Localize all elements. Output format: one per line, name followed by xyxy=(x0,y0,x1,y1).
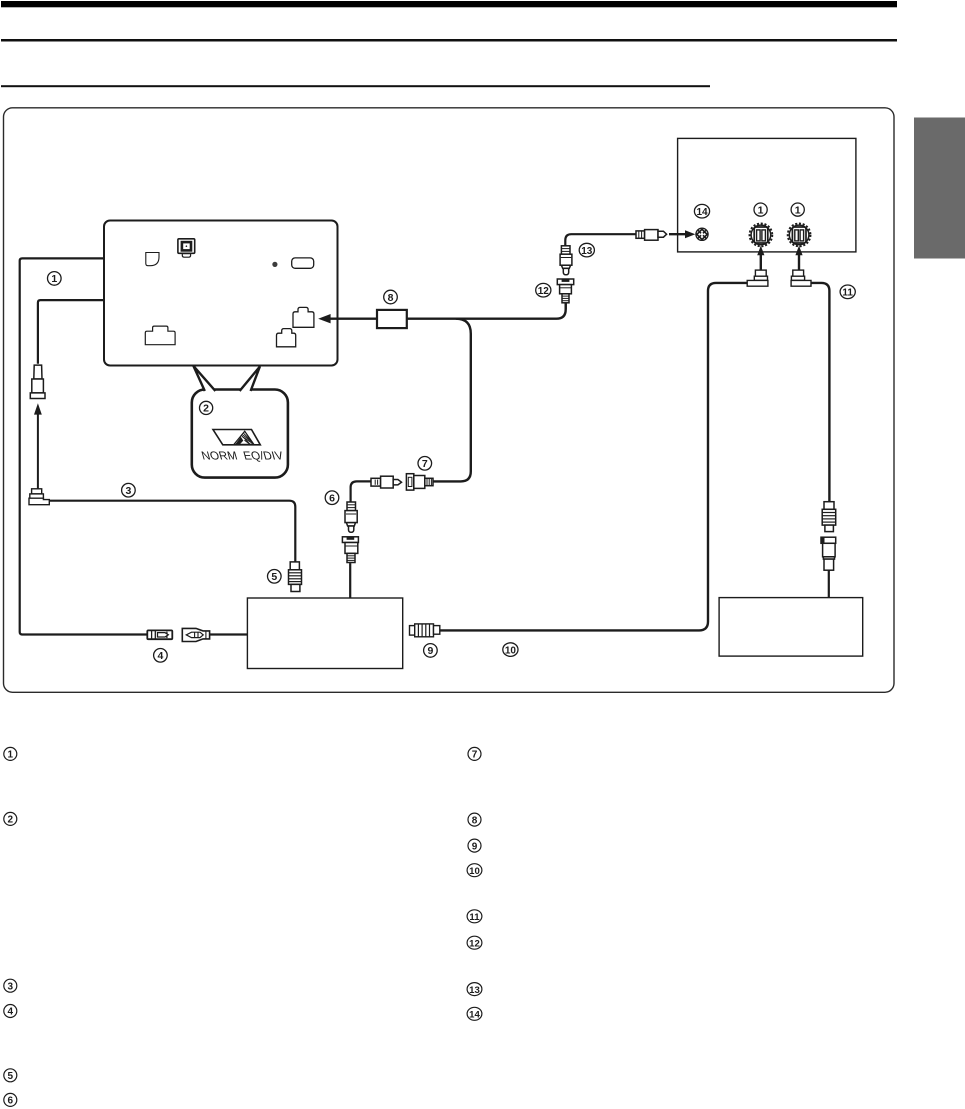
RCA output socket lower xyxy=(277,329,296,347)
legend label 6 xyxy=(4,1093,17,1106)
svg-text:8: 8 xyxy=(388,292,394,304)
bullet terminal female 4 xyxy=(182,628,209,641)
wire jack 7 to junction xyxy=(433,319,471,482)
DIN socket right xyxy=(788,224,811,247)
JASO antenna plug xyxy=(30,365,45,398)
connector 9 barrel xyxy=(410,624,440,637)
svg-text:9: 9 xyxy=(472,841,478,852)
label 1 right DIN xyxy=(791,203,804,216)
top title bar xyxy=(1,1,897,7)
balloon callout 2 xyxy=(192,366,288,478)
wire jack 12 down xyxy=(565,303,567,309)
legend label 2 xyxy=(4,812,17,825)
label 8 xyxy=(384,290,398,304)
svg-text:14: 14 xyxy=(469,1010,480,1021)
svg-text:13: 13 xyxy=(581,246,593,257)
svg-text:9: 9 xyxy=(427,645,433,657)
svg-text:7: 7 xyxy=(422,458,428,470)
wire: antenna lead from head unit xyxy=(20,258,147,634)
label 10 xyxy=(503,643,518,657)
wire to amplifier xyxy=(828,570,830,597)
label 9 xyxy=(424,644,438,658)
svg-text:5: 5 xyxy=(8,1071,14,1082)
header rule xyxy=(1,39,897,42)
svg-text:8: 8 xyxy=(472,815,478,826)
svg-text:5: 5 xyxy=(271,571,277,583)
antenna socket xyxy=(146,253,159,266)
fuse holder xyxy=(292,258,314,268)
screw xyxy=(272,262,277,267)
label 13 xyxy=(579,243,594,257)
svg-text:14: 14 xyxy=(696,207,708,218)
L-plug antenna extension xyxy=(29,489,49,505)
svg-text:3: 3 xyxy=(8,981,14,992)
label 7 xyxy=(418,457,432,471)
arrow to knurled jack xyxy=(669,230,695,238)
legend label 11 xyxy=(467,910,482,923)
label 1 xyxy=(48,272,62,286)
section underline xyxy=(1,85,710,87)
RCA cable 13: elbow wire xyxy=(565,234,636,246)
RCA jack 12 xyxy=(557,279,573,303)
wire jack to equalizer xyxy=(349,563,351,598)
power antenna connector xyxy=(178,239,195,257)
RCA output socket upper xyxy=(293,307,314,327)
label 12 xyxy=(536,283,551,297)
svg-text:13: 13 xyxy=(469,985,480,996)
label 1 left DIN xyxy=(754,203,767,216)
svg-text:2: 2 xyxy=(8,815,14,826)
arrow up into right DIN xyxy=(795,246,802,270)
svg-text:10: 10 xyxy=(505,645,517,656)
svg-text:1: 1 xyxy=(8,750,14,761)
connector 11 upper barrel xyxy=(822,502,836,532)
label 4 xyxy=(154,649,168,663)
knurled jack 14 xyxy=(694,226,711,243)
RCA cable 13: vertical male plug xyxy=(560,246,572,275)
CD shuttle box xyxy=(678,138,856,252)
legend label 3 xyxy=(4,979,17,992)
NORM EQ/DIV switch icon xyxy=(213,430,260,445)
svg-text:10: 10 xyxy=(469,866,480,877)
DIN socket left xyxy=(750,224,773,247)
equalizer/divider box xyxy=(247,598,402,669)
label 5 xyxy=(268,570,282,584)
wire 3 to connector 5 xyxy=(49,501,295,562)
main wire fuse to jack 12 xyxy=(407,303,566,319)
legend label 10 xyxy=(467,864,482,877)
wire 11 from right L-plug down xyxy=(811,283,829,502)
legend label 5 xyxy=(4,1069,17,1082)
svg-text:1: 1 xyxy=(51,273,57,285)
RCA cable 6: horizontal male plug xyxy=(371,476,402,488)
svg-text:1: 1 xyxy=(758,204,764,216)
RCA cable 6: vertical male plug xyxy=(345,502,357,532)
bullet terminal male 4 xyxy=(147,630,172,639)
wire female bullet to equalizer xyxy=(210,633,247,635)
RCA cable 13: horizontal male plug xyxy=(636,230,667,241)
legend label 14 xyxy=(467,1007,482,1020)
head unit (rear view) xyxy=(104,221,338,366)
legend label 7 xyxy=(468,747,481,760)
legend label 13 xyxy=(467,983,482,996)
legend label 4 xyxy=(4,1005,17,1018)
wire 10 from left L-plug to connector 9 xyxy=(440,283,747,631)
svg-text:7: 7 xyxy=(472,750,478,761)
ISO antenna connector xyxy=(145,326,175,345)
svg-text:2: 2 xyxy=(203,403,209,415)
connector 5 ribbed barrel xyxy=(289,562,302,592)
legend label 1 xyxy=(4,747,17,760)
DIN L-plug right xyxy=(791,270,811,286)
page index tab xyxy=(914,118,965,259)
RCA jack vertical (equalizer input) xyxy=(342,537,358,563)
RCA jack 7 xyxy=(406,474,433,490)
label 11 xyxy=(840,285,855,299)
legend label 12 xyxy=(467,936,482,949)
svg-text:4: 4 xyxy=(157,650,163,662)
label 6 xyxy=(325,491,339,505)
arrow up into left DIN xyxy=(757,246,764,270)
arrow up to antenna plug xyxy=(34,403,42,489)
legend label 9 xyxy=(468,839,481,852)
svg-text:NORM EQ/DIV: NORM EQ/DIV xyxy=(200,449,285,463)
label 2 xyxy=(200,401,213,414)
label 3 xyxy=(122,483,136,497)
DIN L-plug left xyxy=(747,270,768,286)
svg-text:6: 6 xyxy=(8,1096,14,1107)
svg-text:12: 12 xyxy=(538,286,550,297)
wire: antenna extension from head unit xyxy=(38,300,104,364)
label 14 xyxy=(694,204,709,218)
svg-text:12: 12 xyxy=(469,938,480,949)
svg-text:6: 6 xyxy=(329,493,335,505)
amplifier box xyxy=(719,598,863,657)
svg-text:4: 4 xyxy=(8,1007,14,1018)
legend label 8 xyxy=(468,813,481,826)
connector 11 lower plug xyxy=(821,537,836,570)
svg-text:3: 3 xyxy=(125,485,131,497)
arrow into head unit socket xyxy=(318,314,377,323)
diagram border xyxy=(4,108,895,693)
RCA cable 6: elbow wire xyxy=(351,481,371,502)
svg-text:11: 11 xyxy=(842,288,853,299)
svg-text:1: 1 xyxy=(795,204,801,216)
fuse box 8 xyxy=(377,310,407,328)
svg-text:11: 11 xyxy=(469,912,480,923)
